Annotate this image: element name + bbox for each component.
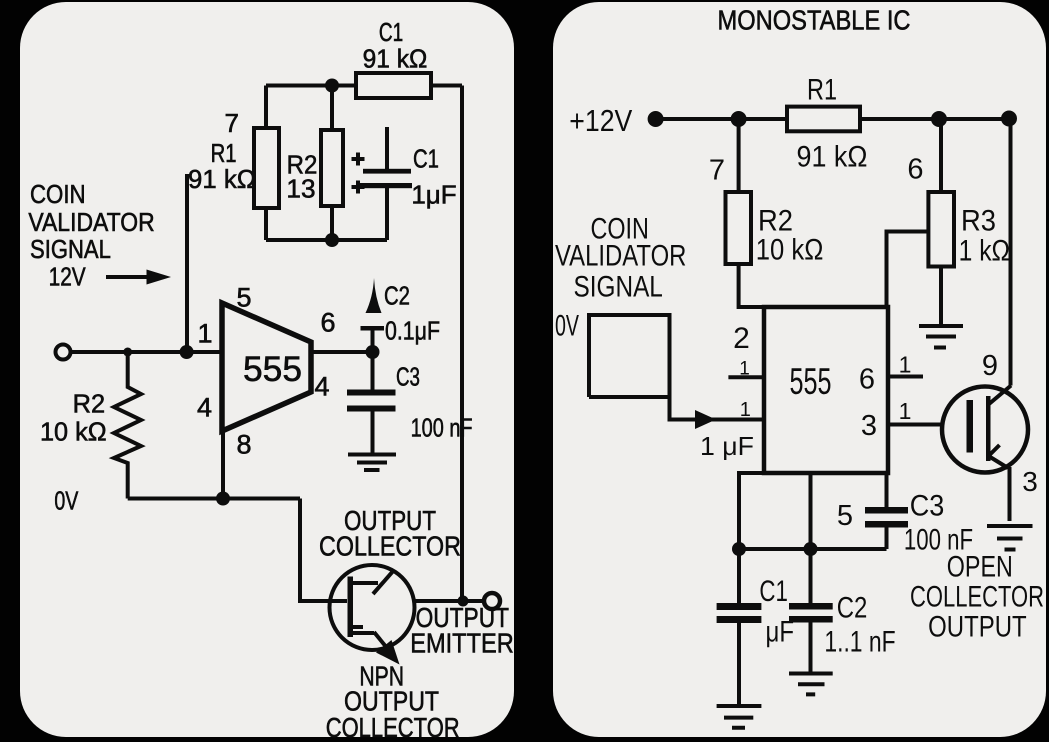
- resistor R3 box: [928, 192, 954, 267]
- wire IC bottom right leg to C3: [885, 473, 889, 507]
- transistor Q2 right bar: [986, 396, 991, 461]
- svg-text:OPEN: OPEN: [947, 550, 1013, 583]
- svg-text:1: 1: [739, 359, 750, 380]
- transistor Q1 collector diagonal: [373, 570, 394, 594]
- svg-text:8: 8: [236, 429, 251, 459]
- svg-text:5: 5: [837, 500, 853, 532]
- svg-text:SIGNAL: SIGNAL: [30, 234, 111, 264]
- svg-text:555: 555: [243, 350, 302, 389]
- svg-text:MONOSTABLE IC: MONOSTABLE IC: [718, 5, 911, 36]
- wire input horizontal: [71, 350, 223, 354]
- resistor R1 box (right): [787, 107, 860, 132]
- wire R3 top: [939, 119, 943, 192]
- svg-text:7: 7: [224, 108, 238, 138]
- svg-text:C1: C1: [413, 144, 439, 174]
- node emitter junction: [458, 596, 469, 607]
- wire emitter output: [415, 599, 485, 603]
- wire pin8 drop: [221, 431, 225, 499]
- capacitor C3 bottom plate: [347, 406, 396, 412]
- svg-text:555: 555: [790, 361, 832, 402]
- transistor Q2 circle: [942, 387, 1028, 473]
- svg-text:13: 13: [286, 174, 315, 204]
- capacitor C2 stub: [371, 330, 375, 347]
- capacitor C1 bottom stub: [385, 188, 389, 240]
- svg-text:9: 9: [982, 350, 998, 382]
- svg-text:1μF: 1μF: [411, 179, 456, 209]
- transistor Q1 emitter arrowhead: [376, 640, 400, 665]
- capacitor C1 top stub: [385, 127, 389, 171]
- svg-text:1: 1: [899, 398, 912, 424]
- node rail R3 junction: [931, 111, 947, 127]
- svg-text:0.1μF: 0.1μF: [385, 315, 440, 345]
- svg-text:100 nF: 100 nF: [411, 412, 473, 442]
- svg-text:COLLECTOR: COLLECTOR: [326, 712, 460, 742]
- wire R2 bottom to IC: [739, 264, 766, 307]
- right panel: [553, 2, 1046, 737]
- svg-text:C2: C2: [384, 280, 410, 310]
- svg-text:C1: C1: [759, 575, 788, 608]
- svg-text:2: 2: [733, 322, 750, 355]
- transistor Q1 emitter arrow: [374, 632, 387, 648]
- node top rail junction: [325, 79, 339, 93]
- terminal +12V dot: [648, 111, 664, 127]
- svg-text:+12V: +12V: [569, 103, 632, 138]
- svg-text:COLLECTOR: COLLECTOR: [319, 530, 461, 561]
- svg-text:4: 4: [314, 371, 329, 401]
- svg-text:1: 1: [740, 399, 751, 421]
- svg-text:R2: R2: [73, 388, 106, 418]
- svg-text:R3: R3: [961, 204, 996, 237]
- svg-text:C2: C2: [837, 591, 868, 624]
- signal arrow head: [147, 270, 172, 285]
- svg-text:10 kΩ: 10 kΩ: [40, 416, 107, 446]
- wire collector drop: [1009, 119, 1013, 386]
- wire R2mid top: [330, 86, 334, 131]
- wire right long drop: [460, 86, 464, 602]
- node bottom loop junction: [325, 233, 339, 247]
- node bus C1: [732, 542, 746, 556]
- svg-text:1: 1: [899, 352, 912, 378]
- svg-text:3: 3: [861, 410, 877, 442]
- transistor Q2 emitter diagonal: [989, 456, 1009, 468]
- svg-text:R1: R1: [807, 73, 837, 106]
- wire +12V rail right: [860, 117, 1011, 121]
- ground (C3): [348, 455, 396, 471]
- svg-text:91 kΩ: 91 kΩ: [363, 43, 428, 73]
- svg-text:10 kΩ: 10 kΩ: [756, 233, 824, 266]
- svg-text:1: 1: [197, 318, 212, 348]
- wire top rail right of resistor to right drop: [431, 84, 462, 88]
- wire R3 tap to IC corner: [887, 232, 929, 308]
- svg-text:COLLECTOR: COLLECTOR: [910, 580, 1044, 613]
- wire R2 top (right): [737, 119, 741, 192]
- wire +12V rail left: [656, 117, 787, 121]
- ground (C1 right): [717, 706, 762, 728]
- plus sign lower: [352, 181, 365, 194]
- pulse waveform bottom edge: [589, 395, 670, 399]
- capacitor C3 bottom stub (right): [885, 528, 889, 550]
- terminal output circle: [484, 593, 500, 609]
- transistor Q1 circle: [330, 565, 415, 650]
- wire emitter to ground: [1008, 467, 1012, 521]
- wire pin3 to transistor: [888, 423, 942, 427]
- svg-text:OUTPUT: OUTPUT: [928, 610, 1027, 643]
- transistor Q2 collector diagonal: [989, 386, 1011, 405]
- pulse waveform square: [589, 315, 708, 420]
- op-amp 555 trapezoid: [222, 303, 311, 431]
- wire R1 bottom: [264, 208, 268, 240]
- svg-text:VALIDATOR: VALIDATOR: [28, 207, 154, 237]
- pin stub left 1: [728, 375, 764, 379]
- capacitor C1 bottom plate: [356, 183, 412, 188]
- svg-text:7: 7: [709, 154, 725, 186]
- left panel: [20, 2, 514, 737]
- svg-text:C3: C3: [910, 489, 945, 522]
- svg-text:VALIDATOR: VALIDATOR: [555, 239, 686, 272]
- transistor Q1 collector tick: [352, 581, 378, 585]
- node output junction: [366, 345, 380, 359]
- capacitor C3 bottom plate (right): [865, 521, 908, 528]
- capacitor C2 plates (right): [789, 603, 833, 610]
- svg-text:1 μF: 1 μF: [700, 431, 754, 461]
- svg-text:91 kΩ: 91 kΩ: [797, 140, 868, 173]
- resistor R2 box (right): [726, 192, 752, 264]
- svg-text:SIGNAL: SIGNAL: [574, 270, 663, 303]
- capacitor C2 stub bottom (right): [809, 623, 813, 673]
- pin stub right 6: [888, 375, 923, 379]
- capacitor C3 top plate (right): [865, 507, 908, 514]
- ground (C2 right): [789, 674, 833, 695]
- capacitor C2 stub top (right): [809, 549, 813, 603]
- transistor Q2 emitter barb: [989, 445, 1000, 456]
- capacitor C3 bottom stub: [371, 411, 375, 453]
- node rail end junction: [1001, 111, 1017, 127]
- wire IC bottom mid leg: [809, 473, 813, 549]
- transistor Q1 emitter tick lower: [350, 631, 374, 635]
- svg-text:3: 3: [1022, 466, 1038, 497]
- capacitor C3 top stub: [371, 358, 375, 391]
- wire bottom bus: [739, 547, 887, 551]
- wire IC bottom left leg: [739, 473, 766, 549]
- wire R2mid bottom: [330, 206, 334, 240]
- capacitor C1 stub top (right): [737, 549, 741, 603]
- wire left branch down to R1: [264, 86, 268, 129]
- wire input riser: [185, 174, 189, 352]
- svg-text:C3: C3: [396, 361, 420, 391]
- resistor R2 zigzag: [114, 352, 141, 499]
- transistor Q1 emitter tick upper: [352, 625, 363, 629]
- capacitor C1 top plate: [363, 169, 411, 174]
- capacitor C1 stub bottom (right): [737, 623, 741, 705]
- svg-text:12V: 12V: [49, 261, 87, 291]
- wire 0V rail: [128, 497, 300, 501]
- transistor Q1 base bar: [348, 577, 354, 638]
- wire output from 555: [311, 350, 373, 354]
- capacitor C2 arrow: [366, 278, 382, 313]
- svg-text:1 kΩ: 1 kΩ: [959, 234, 1010, 267]
- capacitor C3 top plate: [347, 390, 396, 396]
- svg-text:0V: 0V: [54, 485, 78, 515]
- terminal input circle: [56, 345, 71, 360]
- svg-text:6: 6: [320, 307, 335, 337]
- transistor Q2 left bar: [967, 400, 974, 453]
- resistor C1 91k horizontal box: [356, 73, 431, 98]
- resistor R2-13 vertical box: [321, 130, 343, 206]
- svg-text:6: 6: [859, 364, 875, 396]
- resistor R1 vertical box: [254, 128, 279, 208]
- wire R3 bottom: [939, 267, 943, 327]
- node small at R2 branch: [123, 348, 132, 357]
- ground (Q2): [987, 526, 1033, 550]
- IC 555 box: [764, 307, 888, 473]
- signal arrow shaft: [106, 275, 150, 279]
- svg-text:0V: 0V: [555, 309, 579, 342]
- svg-text:91 kΩ: 91 kΩ: [188, 164, 256, 194]
- svg-text:COIN: COIN: [30, 179, 86, 209]
- capacitor C2 bar: [361, 326, 385, 331]
- svg-text:6: 6: [907, 153, 923, 185]
- wire top rail left of resistor: [266, 84, 356, 88]
- node input junction: [180, 345, 194, 359]
- svg-text:1..1 nF: 1..1 nF: [824, 625, 895, 658]
- svg-text:C1: C1: [379, 17, 403, 47]
- input arrowhead (right): [695, 410, 716, 429]
- ground (R3): [919, 326, 963, 348]
- node bus C2: [804, 542, 818, 556]
- node rail R2 junction: [731, 111, 747, 127]
- svg-text:EMITTER: EMITTER: [410, 627, 514, 658]
- node 0V junction: [216, 492, 230, 506]
- plus sign upper: [352, 153, 365, 166]
- wire arrow to IC: [711, 418, 764, 422]
- capacitor C1 plates (right): [717, 603, 762, 610]
- wire bottom loop: [266, 238, 387, 242]
- svg-text:4: 4: [197, 392, 212, 422]
- wire base route: [300, 499, 347, 602]
